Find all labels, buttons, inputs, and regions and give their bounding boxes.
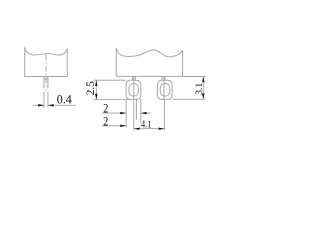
svg-text:2.5: 2.5 [83,81,97,95]
svg-text:0.4: 0.4 [57,91,72,106]
svg-text:2: 2 [103,114,108,129]
svg-text:3.1: 3.1 [194,83,205,95]
svg-text:4.1: 4.1 [141,119,151,131]
